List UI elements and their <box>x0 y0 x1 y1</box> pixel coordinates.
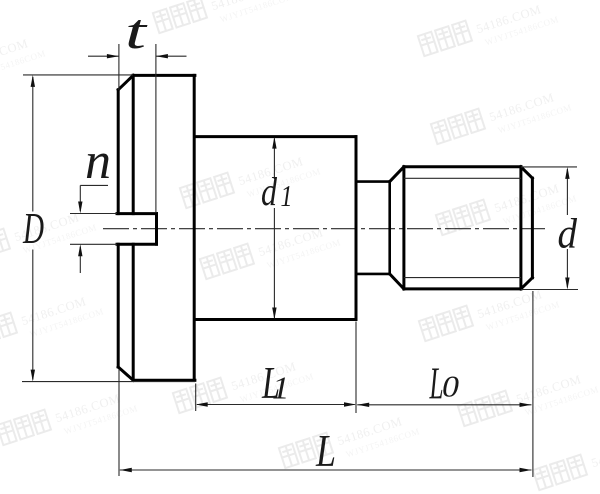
centerline <box>103 228 545 230</box>
dimension D <box>22 75 195 382</box>
svg-text:d: d <box>261 169 278 214</box>
arrowheads t <box>107 54 168 58</box>
dimension d1 <box>273 139 275 319</box>
svg-text:n: n <box>85 133 111 190</box>
dimension L <box>119 369 532 476</box>
neck <box>356 182 390 274</box>
dimension L0 <box>357 291 533 477</box>
svg-text:0: 0 <box>442 369 460 404</box>
slot <box>117 214 157 245</box>
dimension d <box>521 167 578 290</box>
dimension t <box>88 44 187 213</box>
arrowheads L1 <box>196 402 356 406</box>
dimension L1 <box>196 322 356 414</box>
arrowheads L0 <box>357 403 531 407</box>
svg-text:d: d <box>558 211 578 258</box>
arrowheads D <box>31 75 35 382</box>
svg-text:1: 1 <box>281 178 293 213</box>
head outline <box>118 75 195 380</box>
thread <box>390 167 533 289</box>
svg-text:1: 1 <box>272 370 290 406</box>
arrowheads L <box>120 468 532 472</box>
arrowheads d1 <box>272 137 276 320</box>
shoulder <box>196 137 356 320</box>
svg-text:L: L <box>315 425 336 476</box>
svg-text:t: t <box>125 3 148 59</box>
dimension n <box>70 185 117 273</box>
arrowheads n <box>78 202 82 257</box>
thread minor diameter lines <box>404 178 521 277</box>
svg-text:D: D <box>22 204 44 253</box>
arrowheads d <box>565 167 569 290</box>
